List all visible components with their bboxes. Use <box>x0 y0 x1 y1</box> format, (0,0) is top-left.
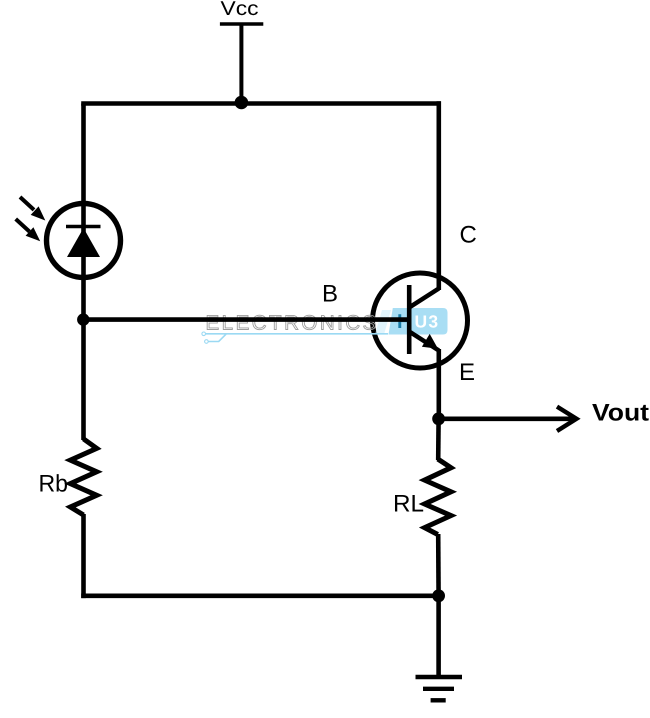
ground symbol <box>416 677 463 700</box>
svg-text:Vcc: Vcc <box>221 0 259 20</box>
resistor RL zigzag <box>425 459 451 535</box>
resistor Rb zigzag <box>70 439 96 515</box>
wire collector vertical <box>436 101 441 290</box>
wire top rail <box>81 101 441 106</box>
svg-text:ELECTRONICS: ELECTRONICS <box>206 312 379 335</box>
Vcc bar <box>220 22 263 25</box>
wire emitter to RL <box>436 419 441 460</box>
svg-text:C: C <box>460 222 477 249</box>
node Vout junction dot <box>432 412 445 425</box>
transistor collector slant <box>409 289 439 308</box>
watermark trace pad circle 2 <box>205 340 209 344</box>
light arrow 1 <box>20 197 45 221</box>
transistor emitter slant <box>409 332 439 351</box>
wire emitter vertical <box>436 349 441 420</box>
transistor Q1 body <box>373 273 468 368</box>
svg-text:Vout: Vout <box>592 400 649 427</box>
wire Vout horizontal <box>439 416 576 421</box>
photodiode anode triangle <box>67 228 100 257</box>
svg-text:B: B <box>322 281 338 308</box>
svg-text:Rb: Rb <box>39 471 69 498</box>
svg-text:E: E <box>459 359 475 386</box>
transistor base bar <box>407 285 412 354</box>
wire Rb to bottom rail <box>81 514 86 598</box>
Vout open arrowhead <box>557 407 577 431</box>
node Vcc junction dot <box>235 96 249 110</box>
wire RL to bottom node <box>436 534 441 598</box>
watermark HUB block <box>389 308 448 335</box>
svg-text:U3: U3 <box>415 312 440 332</box>
wire bottom rail <box>81 593 438 598</box>
watermark logo band <box>202 308 448 343</box>
watermark trace line <box>205 334 388 342</box>
node bottom junction dot <box>432 589 445 602</box>
light arrow 2 <box>16 219 41 241</box>
node base junction dot <box>77 313 89 325</box>
wire left vertical (rail to photodiode to base node) <box>81 104 86 320</box>
photodiode cathode bar <box>66 225 101 228</box>
wire left vertical to Rb <box>81 320 86 440</box>
wire Vcc stem <box>239 24 243 104</box>
transistor emitter arrowhead <box>422 334 438 349</box>
watermark light parallelogram <box>375 310 391 335</box>
wire base (node to transistor base) <box>83 317 409 322</box>
photodiode D1 body <box>47 204 121 278</box>
wire ground stem <box>436 596 441 677</box>
svg-text:RL: RL <box>393 491 424 518</box>
watermark trace pad circle 1 <box>202 332 206 336</box>
